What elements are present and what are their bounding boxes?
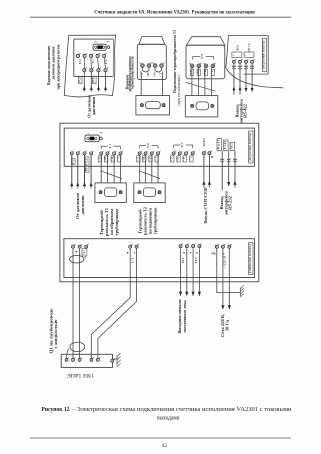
T3 wires to connector	[191, 68, 193, 96]
svg-text:-: -	[78, 355, 79, 358]
svg-text:Р2: Р2	[78, 76, 81, 83]
svg-text:Р1: Р1	[93, 76, 96, 83]
inset: torn fragment of upper board with RS-422	[226, 36, 283, 88]
jumper loops between screws	[142, 67, 149, 72]
svg-text:на обратном: на обратном	[110, 208, 114, 235]
svg-text:-: -	[94, 73, 95, 76]
RS-422 wires with arrows	[233, 63, 235, 94]
svg-text:+R: +R	[204, 69, 207, 74]
label Р1 и т.д. under pressure terminals	[85, 157, 89, 172]
svg-text:Т3: Т3	[180, 142, 184, 148]
svg-text:выходами: выходами	[157, 416, 180, 422]
svg-text:Т2: Т2	[146, 142, 150, 148]
svg-text:-: -	[65, 355, 66, 358]
svg-text:Рисунок 12: Рисунок 12	[42, 407, 70, 413]
svg-text:SG: SG	[229, 143, 233, 150]
svg-text:IN: IN	[236, 43, 240, 51]
jumper relay icon on upper board	[85, 135, 99, 142]
label earth symbol	[212, 252, 216, 255]
svg-text:RS-232: RS-232	[229, 196, 233, 210]
inset relay icon	[93, 44, 106, 50]
pressure sensor wires with arrows	[71, 155, 73, 187]
cable connector box (2-wire)	[136, 96, 170, 115]
jumper diagonal wire at T2 connector	[139, 171, 160, 179]
svg-text:– Электрическая схема подключе: – Электрическая схема подключения счетчи…	[70, 407, 292, 413]
svg-text:-: -	[252, 55, 253, 58]
svg-text:-R: -R	[142, 156, 145, 162]
cable connector box (T3)	[185, 96, 218, 117]
terminal group T1 bracket	[101, 145, 108, 147]
label Q1 boxed	[82, 249, 87, 256]
svg-text:Q1: Q1	[83, 249, 86, 255]
svg-text:с жидкостью: с жидкостью	[54, 319, 58, 348]
svg-text:(верхняя плата): (верхняя плата)	[262, 40, 266, 70]
upper board label (верхняя плата)	[249, 131, 253, 163]
jumper diagonal wire at T3 connector	[185, 82, 215, 91]
svg-text:Счетчики жидкости VA. Исполнен: Счетчики жидкости VA. Исполнение VA2301.…	[94, 10, 255, 16]
svg-text:Т1: Т1	[108, 143, 112, 149]
svg-text:Термопреоб-: Термопреоб-	[139, 207, 143, 234]
pressure input terminals P	[70, 152, 73, 155]
wire C1-a to ЭПР1	[91, 248, 130, 358]
connector X2 of transducer T1	[95, 183, 126, 203]
svg-text:-Т: -Т	[136, 156, 139, 162]
svg-text:С1: С1	[130, 256, 134, 263]
wire to chassis ground at ЭПР1	[113, 358, 117, 360]
transducer head cap (2-wire variant)	[139, 37, 165, 45]
lower board label (нижняя плата)	[249, 243, 253, 275]
inset sensor wires with arrows	[83, 72, 85, 92]
cable oval marker in lower board	[70, 255, 84, 263]
RS-232 pin label box RxD	[217, 139, 222, 151]
transducer head body (2-wire variant)	[137, 44, 166, 79]
svg-text:+R: +R	[149, 156, 152, 161]
svg-text:-Т: -Т	[140, 71, 143, 77]
inset wire labels Р2 Р1	[79, 76, 83, 84]
svg-text:постоянного тока: постоянного тока	[183, 300, 187, 332]
bracket T3	[193, 55, 201, 57]
inset upper terminal row	[76, 54, 79, 57]
svg-text:(нижняя плата): (нижняя плата)	[248, 243, 252, 273]
svg-text:-R: -R	[104, 156, 107, 162]
upper board box	[64, 128, 254, 166]
svg-text:термопреобразователя: термопреобразователя	[131, 56, 135, 89]
RS-232 pin label box SG	[230, 142, 235, 150]
IN OUT pin label boxes	[232, 52, 242, 57]
label 220 В ~	[223, 253, 224, 254]
IMP pulse terminals	[202, 152, 205, 155]
svg-text:+Т: +Т	[117, 156, 120, 162]
svg-text:+: +	[245, 54, 247, 57]
svg-text:IMP: IMP	[202, 138, 206, 146]
svg-text:Термопреоб-: Термопреоб-	[100, 208, 104, 235]
lower board box	[64, 239, 255, 278]
meter housing outline	[60, 123, 259, 282]
terminals of ЭПР1	[65, 358, 68, 361]
terminals T3 group	[172, 152, 175, 155]
earth wire to chassis	[217, 248, 241, 292]
svg-text:разователь Т2: разователь Т2	[144, 207, 148, 235]
RS-422 break marks	[232, 66, 236, 67]
mains wires 220V with arrows	[222, 248, 224, 309]
flow transducer box ЭПР1 ЕК1	[61, 354, 112, 367]
footer rule	[30, 437, 291, 439]
svg-text:Р1 и т.д.: Р1 и т.д.	[85, 157, 88, 171]
svg-text:+: +	[101, 73, 103, 76]
svg-text:Вариант подключения: Вариант подключения	[47, 46, 51, 85]
svg-text:А: А	[88, 132, 90, 135]
svg-text:-R: -R	[177, 156, 180, 162]
cable oval marker above ЭПР1	[70, 342, 85, 352]
svg-text:разователь Т1: разователь Т1	[105, 208, 109, 236]
label (верхняя плата) inset	[262, 39, 266, 72]
chassis ground symbol at ЭПР1	[116, 355, 118, 365]
svg-text:давления: давления	[92, 97, 96, 115]
inset row interconnect wires	[83, 58, 85, 69]
svg-text:ЭПР1 ЕК1: ЭПР1 ЕК1	[67, 374, 95, 380]
RS-232 wires with break marks	[221, 151, 223, 191]
svg-text:+U: +U	[92, 59, 95, 64]
connector X3 of transducer T2	[134, 183, 165, 203]
inset lower terminal row	[83, 69, 86, 72]
terminals T1 group	[100, 152, 103, 155]
svg-text:-: -	[108, 73, 109, 76]
svg-text:Сеть 220 В,: Сеть 220 В,	[221, 314, 225, 337]
svg-text:42: 42	[162, 443, 168, 449]
svg-text:трубопроводе: трубопроводе	[115, 208, 119, 235]
svg-text:И2: И2	[194, 256, 198, 263]
terminals T2 group	[138, 152, 141, 155]
svg-text:(верхняя плата): (верхняя плата)	[248, 132, 252, 162]
svg-text:на подающем: на подающем	[149, 207, 153, 234]
svg-text:(при его наличии): (при его наличии)	[177, 75, 181, 106]
svg-text:+: +	[87, 59, 89, 62]
START/STOP pulse wires	[203, 155, 205, 188]
pin labels -T -R +R +T (T3)	[190, 69, 193, 75]
current output wires with arrows	[180, 248, 182, 295]
transducer T3 head cap	[186, 37, 225, 46]
svg-text:Р1: Р1	[105, 58, 108, 64]
svg-text:+Т: +Т	[155, 156, 158, 162]
jumper diagonal wire at T1 connector	[100, 171, 122, 179]
wire from oval to ЭПР1 terminal 1	[67, 349, 69, 359]
svg-text:Rн: Rн	[95, 41, 99, 44]
svg-text:+: +	[87, 73, 89, 76]
svg-text:-R: -R	[147, 72, 150, 78]
polarity and I1 I2 labels	[183, 252, 184, 253]
wire Q1-a to ЭПР1	[72, 248, 74, 358]
svg-text:-: -	[240, 55, 241, 58]
pin labels -T -R +R +T of T3	[171, 156, 174, 162]
svg-text:трубопроводе: трубопроводе	[154, 207, 158, 234]
flow sensor terminals Q1	[72, 245, 75, 248]
svg-text:-Т: -Т	[98, 156, 101, 162]
svg-text:+Т: +Т	[189, 156, 192, 162]
svg-text:Импульс СТАРТ/СТОП: Импульс СТАРТ/СТОП	[204, 187, 208, 223]
svg-text:Выходные сигналы: Выходные сигналы	[178, 299, 182, 333]
svg-text:От датчиков: От датчиков	[88, 95, 92, 118]
svg-text:OUT: OUT	[247, 43, 251, 52]
svg-text:RS-422: RS-422	[244, 104, 248, 118]
svg-text:+R: +R	[111, 156, 114, 161]
transducer T3 head body	[186, 45, 225, 79]
svg-text:+R: +R	[183, 156, 186, 161]
inset: torn paper outline of pressure wiring variant	[64, 35, 115, 97]
svg-text:датчиков давления: датчиков давления	[52, 46, 56, 79]
wire C1-b to ЭПР1	[98, 248, 137, 358]
ground terminal of ЭПР1	[111, 359, 114, 362]
pin labels -T -R +R +T of T2	[137, 156, 140, 162]
wire Q1-b to ЭПР1	[79, 248, 81, 358]
svg-text:От датчиков: От датчиков	[76, 193, 80, 219]
wire to connector (2-wire left)	[140, 72, 142, 96]
wires T2 group to connector X3	[139, 155, 141, 183]
svg-text:-Т: -Т	[170, 156, 173, 162]
svg-text:Т3: Т3	[200, 53, 204, 59]
power terminals earth and 220V	[215, 245, 218, 248]
RS-422 terminals	[232, 60, 235, 63]
svg-text:TxD: TxD	[223, 141, 227, 150]
svg-text:+R: +R	[153, 72, 156, 78]
label Р2 under pressure terminals	[72, 159, 76, 165]
svg-text:RxD: RxD	[216, 140, 220, 150]
svg-text:давления: давления	[81, 195, 85, 214]
wire to connector (2-wire right)	[162, 72, 164, 96]
transducer T3 screws	[190, 64, 194, 68]
svg-text:при двухрядном разъеме: при двухрядном разъеме	[57, 44, 61, 89]
svg-text:Р2: Р2	[79, 58, 82, 64]
label +С1	[127, 252, 128, 253]
svg-text:И1: И1	[181, 256, 185, 263]
polarity dot Q1	[76, 251, 77, 252]
pin labels -T -R +R +T of T1	[98, 156, 101, 162]
chassis ground symbol at power input	[239, 288, 241, 296]
terminal group T3 bracket	[174, 144, 181, 146]
transducer screws (2-wire)	[141, 64, 145, 68]
terminal group T2 bracket	[140, 145, 146, 147]
RS-232 pin label box TxD	[224, 140, 229, 151]
header rule	[30, 16, 291, 18]
svg-text:+: +	[233, 54, 235, 57]
svg-text:50 Гц: 50 Гц	[226, 319, 230, 331]
inset terminal block box	[74, 39, 114, 76]
wires T1 group to connector X2	[100, 155, 102, 183]
svg-text:-: -	[100, 59, 101, 62]
terminals C1	[129, 245, 132, 248]
current output terminals I1 I2	[179, 245, 182, 248]
svg-text:-: -	[96, 355, 97, 358]
